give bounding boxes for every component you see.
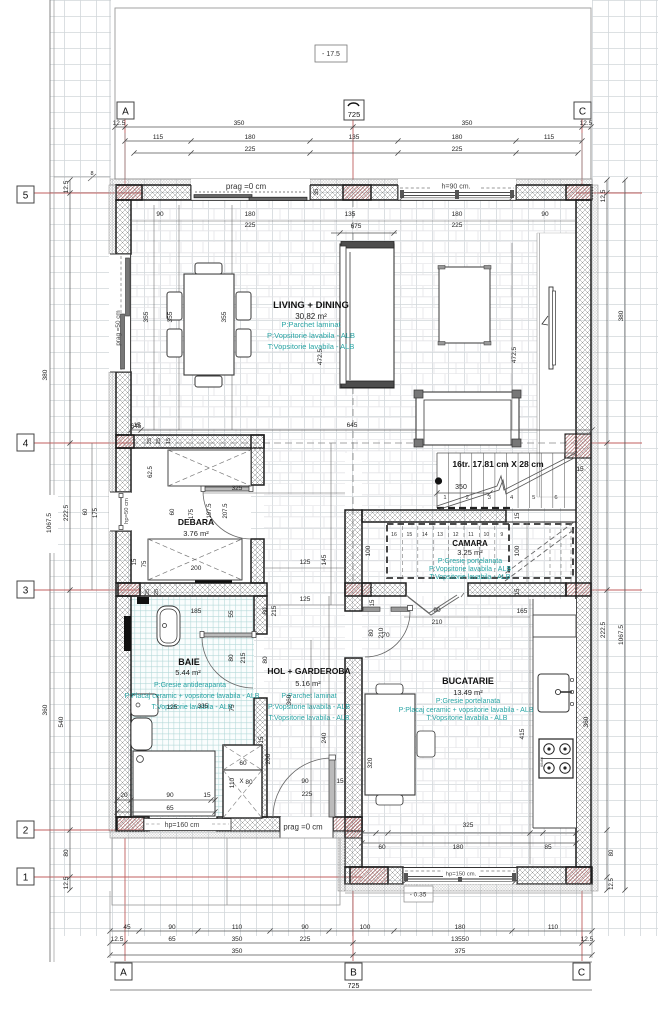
kitchen fridge [533, 615, 576, 637]
svg-text:P:Gresie portelanata: P:Gresie portelanata [436, 698, 500, 705]
svg-text:325: 325 [463, 822, 474, 829]
living floor parquet [131, 200, 576, 453]
column C5 red [566, 185, 591, 200]
svg-text:125: 125 [300, 559, 311, 566]
level label box -0.35 [404, 886, 433, 902]
svg-text:90: 90 [168, 924, 176, 931]
svg-text:180: 180 [245, 211, 256, 218]
stairs lower diagonals [499, 522, 574, 578]
camara bottom wall a [362, 583, 406, 596]
chair right 1 [236, 292, 251, 320]
camara bottom wall b [468, 583, 566, 596]
svg-text:CAMARA: CAMARA [452, 539, 488, 548]
svg-text:T:Vopsitorie lavabila - ALB: T:Vopsitorie lavabila - ALB [430, 574, 511, 581]
svg-text:207.5: 207.5 [223, 503, 229, 519]
bottom right wall left [345, 867, 403, 884]
svg-text:15: 15 [407, 532, 413, 538]
axis 4 red line [34, 442, 135, 444]
svg-text:110: 110 [229, 777, 236, 788]
svg-text:5.16 m²: 5.16 m² [295, 679, 321, 688]
svg-text:210: 210 [432, 619, 443, 626]
svg-text:110: 110 [232, 924, 243, 931]
axis A red line [124, 118, 126, 186]
svg-text:5: 5 [532, 495, 535, 501]
top dim row 3 [134, 152, 578, 154]
axis C red line [581, 118, 583, 186]
living dim 675 [331, 232, 397, 234]
svg-text:hp=150 cm.: hp=150 cm. [446, 872, 477, 878]
svg-text:14: 14 [422, 532, 428, 538]
svg-text:15: 15 [166, 438, 172, 444]
column B2 red [345, 817, 362, 838]
grid bubble B bottom [345, 963, 362, 980]
bottom dim row 1 [110, 930, 592, 932]
level label box -17.5 [315, 45, 347, 62]
svg-text:335: 335 [198, 703, 209, 710]
svg-text:h=90 cm.: h=90 cm. [442, 184, 471, 191]
svg-text:P:Gresie antiderapanta: P:Gresie antiderapanta [154, 682, 226, 689]
grid bubble C top [574, 102, 591, 119]
svg-text:320: 320 [367, 757, 374, 768]
bottom window hp150 [403, 867, 517, 884]
svg-text:80: 80 [609, 849, 615, 856]
svg-text:80: 80 [368, 629, 375, 637]
bottom dim row 2 [110, 942, 592, 944]
corridor floor parquet [264, 448, 345, 817]
left margin 1067 [53, 0, 55, 962]
tv [549, 287, 553, 369]
svg-text:180: 180 [455, 924, 466, 931]
column A2 red [117, 817, 144, 831]
camara stair top lines [506, 509, 576, 511]
svg-text:60: 60 [170, 508, 176, 515]
svg-text:3: 3 [488, 495, 491, 501]
svg-text:B: B [350, 968, 357, 979]
baie right wall upper [254, 596, 267, 634]
svg-text:200: 200 [191, 565, 202, 572]
svg-text:180: 180 [452, 211, 463, 218]
svg-text:C: C [579, 107, 586, 118]
svg-text:prag =0 cm: prag =0 cm [283, 823, 322, 832]
kitchen sink [538, 674, 569, 712]
svg-text:25: 25 [145, 589, 151, 595]
svg-text:125: 125 [300, 596, 311, 603]
svg-text:80: 80 [262, 607, 269, 615]
kitchen stove [539, 739, 573, 778]
svg-text:725: 725 [348, 110, 361, 119]
debara closet bottom [148, 539, 242, 580]
svg-text:15: 15 [133, 422, 141, 429]
svg-text:225: 225 [452, 146, 463, 153]
grid bubble 5 [17, 186, 34, 203]
hol door threshold prag0 [280, 817, 333, 838]
column C4 red [565, 434, 591, 458]
svg-text:T:Vopsitorie lavabila - ALB: T:Vopsitorie lavabila - ALB [427, 715, 508, 722]
svg-text:115: 115 [544, 134, 555, 141]
svg-text:12.5: 12.5 [63, 876, 70, 889]
bottom wall baie [116, 817, 149, 831]
svg-text:65: 65 [166, 805, 174, 812]
svg-text:3: 3 [23, 586, 29, 597]
step wall [345, 817, 362, 867]
right margin 1067 [624, 180, 626, 890]
debara floor [131, 448, 251, 583]
washing machine [133, 751, 215, 816]
svg-text:197.5: 197.5 [207, 503, 213, 519]
svg-text:5: 5 [23, 191, 29, 202]
svg-text:180: 180 [245, 134, 256, 141]
svg-text:60x60: 60x60 [540, 757, 544, 767]
svg-text:62.5: 62.5 [148, 466, 154, 478]
chair left 1 [167, 292, 182, 320]
sliding door top prag label [191, 179, 310, 201]
hol kitchen door [363, 607, 380, 611]
svg-text:13.49 m²: 13.49 m² [453, 688, 483, 697]
shower [223, 745, 262, 818]
svg-text:P:Placaj ceramic + vopsitorie: P:Placaj ceramic + vopsitorie lavabila -… [399, 707, 534, 714]
svg-text:P:Vopsitorie lavabila - ALB: P:Vopsitorie lavabila - ALB [429, 566, 511, 573]
svg-text:45: 45 [123, 924, 131, 931]
svg-text:180: 180 [453, 844, 464, 851]
bottom right insulation [345, 884, 592, 891]
column A3 red [118, 583, 140, 596]
debara closet top [168, 450, 251, 486]
svg-text:15: 15 [203, 792, 211, 799]
svg-text:185: 185 [191, 608, 202, 615]
svg-text:375: 375 [455, 948, 466, 955]
bottom right ground line [345, 892, 592, 894]
column A4 red [116, 435, 134, 448]
baie door [202, 633, 254, 637]
svg-text:hp=50 cm: hp=50 cm [124, 498, 130, 524]
svg-text:360: 360 [583, 716, 590, 727]
kitchen island [365, 694, 415, 795]
svg-text:380: 380 [618, 310, 625, 321]
svg-text:20: 20 [120, 792, 128, 799]
baie black cabinet [137, 597, 149, 604]
svg-text:350: 350 [462, 120, 473, 127]
bench [416, 392, 519, 445]
baie window hp160 [144, 819, 231, 831]
svg-text:222.5: 222.5 [63, 504, 70, 521]
grid bubble 1 [17, 868, 34, 885]
svg-text:1067.5: 1067.5 [618, 625, 625, 645]
svg-text:60: 60 [239, 760, 247, 767]
column C3 red [566, 583, 591, 596]
axis 3 red line [34, 589, 141, 591]
living dim 645 [131, 429, 592, 431]
porch outline [112, 838, 340, 905]
bottom wall hol [333, 817, 362, 831]
baie toilet [131, 718, 152, 750]
svg-text:15: 15 [132, 558, 138, 565]
svg-text:10: 10 [484, 532, 490, 538]
axis 4 dashed [131, 442, 576, 444]
svg-text:prag =0 cm: prag =0 cm [226, 182, 267, 191]
svg-text:350: 350 [232, 936, 243, 943]
sliding door top [195, 191, 306, 193]
svg-text:210: 210 [378, 627, 385, 638]
axis B red line [352, 120, 354, 180]
kitchen chair [417, 731, 435, 757]
bottom wall baie2 [217, 817, 280, 831]
tv wall strip [537, 233, 576, 497]
column B3 red [345, 583, 371, 596]
grid bubble 4 [17, 434, 34, 451]
svg-text:35: 35 [314, 188, 320, 195]
svg-text:prag =50 cm: prag =50 cm [115, 310, 122, 345]
svg-text:360: 360 [286, 694, 293, 705]
grid bubble A top [117, 102, 134, 119]
svg-text:645: 645 [347, 422, 358, 429]
svg-text:16tr. 17.81 cm X 28 cm: 16tr. 17.81 cm X 28 cm [452, 459, 544, 469]
right margin chain [606, 180, 608, 890]
svg-text:350: 350 [232, 948, 243, 955]
svg-text:12.5: 12.5 [111, 936, 124, 943]
svg-text:135: 135 [349, 134, 360, 141]
svg-text:25: 25 [156, 438, 162, 444]
chair right 2 [236, 329, 251, 357]
top window h90 [398, 179, 516, 201]
svg-text:12.5: 12.5 [113, 120, 126, 127]
svg-text:215: 215 [271, 605, 278, 616]
baie top wall black bar [195, 580, 232, 583]
svg-text:P:Parchet laminat: P:Parchet laminat [281, 320, 341, 329]
svg-text:85: 85 [544, 844, 552, 851]
svg-text:- 17.5: - 17.5 [322, 51, 340, 58]
svg-text:X: X [239, 779, 243, 785]
top dim row 1 [115, 126, 591, 128]
chair left 2 [167, 329, 182, 357]
svg-text:115: 115 [153, 134, 164, 141]
left wall upper [116, 200, 131, 254]
top wall pier right [516, 185, 592, 200]
svg-text:16: 16 [391, 532, 397, 538]
svg-text:12.5: 12.5 [600, 189, 607, 202]
baie sink [131, 694, 158, 716]
svg-text:hp=160 cm: hp=160 cm [165, 822, 200, 829]
left wall lower [116, 448, 131, 492]
stairs treads [448, 453, 450, 508]
svg-text:145: 145 [321, 554, 328, 565]
svg-text:LIVING + DINING: LIVING + DINING [273, 300, 349, 311]
svg-text:P:Vopsitorie lavabila - ALB: P:Vopsitorie lavabila - ALB [268, 704, 350, 711]
camara left wall [345, 510, 362, 611]
axis B dashed [352, 200, 354, 583]
svg-text:100: 100 [360, 924, 371, 931]
left window prag50 [109, 254, 131, 372]
svg-text:3.76 m²: 3.76 m² [183, 529, 209, 538]
camara hol wall lower [345, 658, 362, 817]
right wall insulation [591, 185, 598, 891]
kitchen floor parquet [362, 596, 576, 867]
svg-text:80: 80 [228, 654, 235, 662]
baie floor tiles [131, 597, 254, 817]
left wall insulation [109, 185, 116, 254]
top dim row 2 [125, 140, 582, 142]
svg-text:5.44 m²: 5.44 m² [175, 668, 201, 677]
svg-text:380: 380 [42, 369, 49, 380]
sofa [340, 244, 394, 388]
svg-text:6: 6 [554, 495, 557, 501]
svg-text:A: A [122, 107, 129, 118]
svg-text:725: 725 [348, 983, 360, 990]
grid bubble C bottom [573, 963, 590, 980]
svg-text:12: 12 [453, 532, 459, 538]
axis 5 red line [34, 192, 143, 194]
column A5 red [116, 185, 142, 200]
camara top wall [362, 510, 506, 522]
svg-text:- 0.35: - 0.35 [410, 892, 427, 899]
grid frame line left [49, 0, 51, 962]
svg-text:90: 90 [156, 211, 164, 218]
svg-text:75: 75 [229, 704, 236, 712]
svg-text:T:Vopsitorie lavabila - ALB: T:Vopsitorie lavabila - ALB [269, 715, 350, 722]
svg-text:165: 165 [517, 608, 528, 615]
svg-text:BUCATARIE: BUCATARIE [442, 676, 494, 686]
kitchen counter [533, 599, 576, 828]
bottom right wall right [517, 867, 592, 884]
debara right wall upper [251, 435, 264, 485]
svg-text:P:Gresie portelanata: P:Gresie portelanata [438, 558, 502, 565]
stairs lower treads [549, 522, 551, 583]
left window dim 355 lines [153, 205, 155, 430]
svg-text:A: A [120, 968, 127, 979]
left margin local dims [91, 443, 93, 590]
debara top wall [116, 435, 264, 448]
debara door [203, 487, 251, 491]
svg-text:135: 135 [345, 211, 356, 218]
svg-text:360: 360 [42, 704, 49, 715]
svg-text:C: C [578, 968, 585, 979]
svg-text:T:Vopsitorie lavabila - ALB: T:Vopsitorie lavabila - ALB [152, 704, 233, 711]
svg-text:15: 15 [576, 466, 584, 473]
svg-text:125: 125 [167, 704, 178, 711]
left wall mid [116, 372, 131, 435]
top wall pier left [116, 185, 191, 200]
stairs border [437, 452, 576, 454]
grid bubble 3 [17, 581, 34, 598]
right wall [576, 200, 591, 867]
svg-text:180: 180 [452, 134, 463, 141]
svg-text:175: 175 [189, 508, 195, 519]
svg-text:472.5: 472.5 [317, 348, 324, 365]
svg-text:15: 15 [336, 778, 344, 785]
bottom dim row 3 [110, 954, 592, 956]
column C1 red [566, 867, 591, 884]
svg-text:222.5: 222.5 [600, 621, 607, 638]
stairs under treads [401, 526, 403, 577]
svg-text:215: 215 [240, 652, 247, 663]
coffee table [439, 267, 490, 343]
svg-text:350: 350 [234, 120, 245, 127]
svg-text:225: 225 [300, 936, 311, 943]
camara bifold door [408, 597, 459, 615]
svg-text:90: 90 [301, 778, 309, 785]
svg-text:12.5: 12.5 [63, 180, 70, 193]
baie right wall lower [254, 698, 267, 817]
baie top wall [116, 583, 267, 596]
stairs under dashed outline [387, 524, 573, 578]
svg-text:P:Vopsitorie lavabila - ALB: P:Vopsitorie lavabila - ALB [267, 331, 355, 340]
grid bubble B top [344, 100, 364, 120]
chair top [195, 263, 222, 274]
svg-text:225: 225 [245, 222, 256, 229]
svg-text:225: 225 [245, 146, 256, 153]
svg-text:T:Vopsitorie lavabila - ALB: T:Vopsitorie lavabila - ALB [268, 342, 355, 351]
svg-text:P:Placaj ceramic + vopsitorie: P:Placaj ceramic + vopsitorie lavabila -… [125, 693, 260, 700]
svg-text:15: 15 [370, 599, 376, 606]
stair landing floor [362, 453, 437, 508]
svg-text:1067.5: 1067.5 [46, 513, 53, 533]
svg-text:2: 2 [23, 826, 29, 837]
svg-text:4: 4 [23, 439, 29, 450]
svg-text:12.5: 12.5 [609, 878, 615, 890]
stairs walk line [437, 453, 576, 506]
svg-text:8: 8 [90, 171, 93, 177]
column B1 red [350, 867, 388, 884]
svg-text:675: 675 [351, 223, 362, 230]
svg-text:415: 415 [519, 728, 526, 739]
svg-text:1: 1 [443, 495, 446, 501]
svg-text:13: 13 [437, 532, 443, 538]
step wall insulation [338, 838, 345, 891]
svg-text:100: 100 [514, 545, 521, 556]
svg-text:355: 355 [143, 311, 150, 322]
grid bubble A bottom [115, 963, 132, 980]
grid bubble 2 [17, 821, 34, 838]
svg-text:355: 355 [221, 311, 228, 322]
svg-text:11: 11 [468, 532, 473, 538]
svg-text:15: 15 [515, 512, 521, 519]
svg-text:200: 200 [265, 753, 272, 764]
svg-text:60: 60 [83, 508, 89, 515]
svg-text:15: 15 [259, 736, 265, 743]
svg-text:350: 350 [455, 484, 467, 491]
svg-text:60: 60 [378, 844, 386, 851]
stairs bottom thick dashed [437, 507, 512, 509]
svg-text:13550: 13550 [451, 936, 469, 943]
left wall baie [116, 596, 131, 817]
debara right wall lower [251, 539, 264, 583]
svg-text:3.25 m²: 3.25 m² [457, 548, 483, 557]
stairs white area [437, 453, 576, 508]
svg-text:1: 1 [23, 873, 29, 884]
svg-text:540: 540 [58, 716, 65, 727]
chair bottom [195, 376, 222, 387]
svg-text:9: 9 [500, 532, 503, 538]
svg-text:80: 80 [245, 779, 253, 786]
svg-text:HOL + GARDEROBA: HOL + GARDEROBA [267, 666, 350, 676]
left margin total chain [69, 180, 71, 890]
svg-text:175: 175 [93, 507, 99, 518]
svg-text:90: 90 [433, 607, 441, 614]
dining table [184, 274, 234, 375]
top window dim arrows [402, 197, 512, 199]
svg-text:55: 55 [228, 610, 235, 618]
upper outline white area [111, 0, 592, 179]
svg-text:110: 110 [548, 924, 559, 931]
svg-text:25: 25 [147, 438, 153, 444]
axis 2 red line [34, 829, 145, 831]
svg-text:90: 90 [541, 211, 549, 218]
bottom left insulation [110, 831, 280, 838]
svg-text:355: 355 [167, 311, 174, 322]
svg-text:80: 80 [262, 656, 269, 664]
svg-text:BAIE: BAIE [178, 657, 200, 667]
top wall insulation [110, 179, 191, 185]
svg-text:15: 15 [515, 588, 521, 595]
